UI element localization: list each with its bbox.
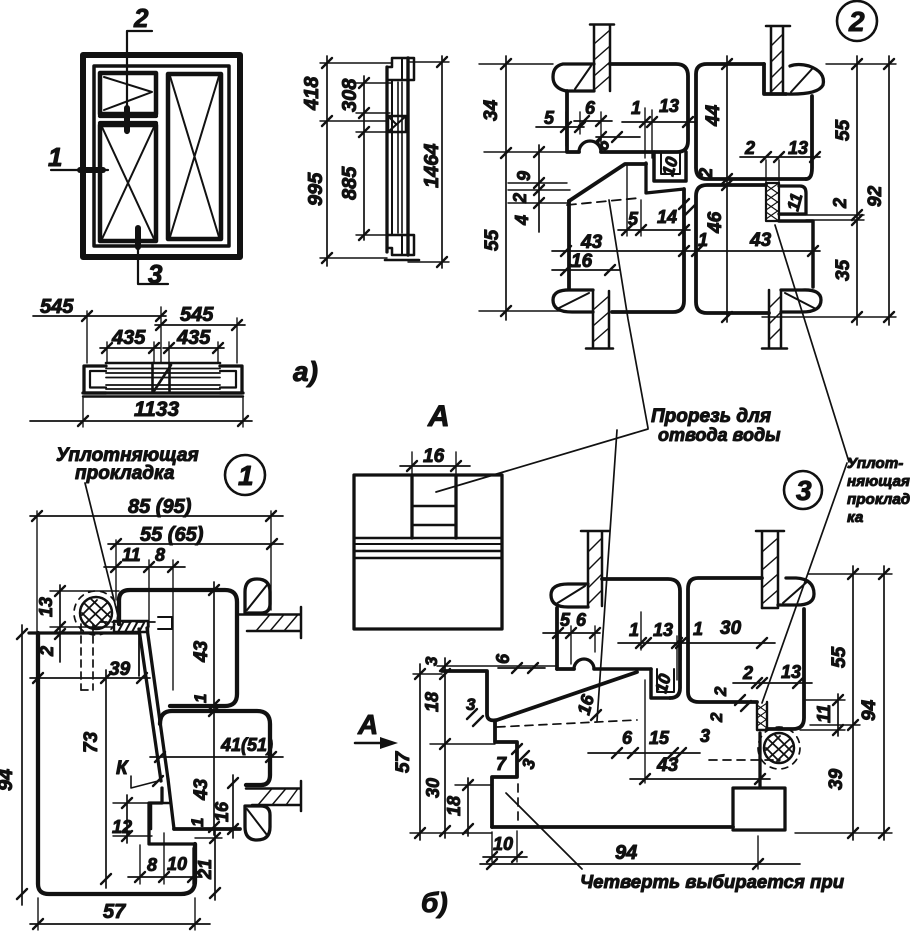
plan section right jamb bracket bbox=[220, 366, 242, 393]
det2 upper-left sash body bbox=[601, 64, 688, 152]
svg-text:13: 13 bbox=[36, 597, 56, 617]
svg-text:94: 94 bbox=[615, 842, 637, 864]
left casement diagonal 1 bbox=[102, 127, 154, 239]
det1 dashed bracket bbox=[158, 617, 172, 629]
det2 upper-right sash bead bump bbox=[786, 65, 823, 95]
det1 frame rebate vertical bbox=[138, 633, 140, 676]
svg-text:21: 21 bbox=[195, 859, 215, 880]
svg-text:85 (95): 85 (95) bbox=[128, 496, 192, 518]
svg-text:39: 39 bbox=[826, 768, 847, 790]
view A block outline bbox=[354, 475, 502, 629]
svg-text:57: 57 bbox=[393, 750, 414, 773]
det1 upper sash glazing bead bbox=[245, 579, 270, 613]
det2 lower-left sash rebate bbox=[646, 163, 684, 193]
view A drainage slot bbox=[410, 475, 413, 538]
det2 upper-left sash bottom left bbox=[567, 91, 579, 152]
svg-text:2: 2 bbox=[37, 646, 57, 657]
det1 dim 16 bbox=[232, 775, 234, 838]
leader tick 2 bbox=[124, 108, 130, 131]
det2 upper-left sash groove arc bbox=[579, 141, 601, 152]
svg-text:6: 6 bbox=[622, 728, 633, 748]
det2 left glass pane top bbox=[593, 25, 596, 91]
vsec dim line right 1464 bbox=[441, 56, 443, 268]
det1 sash slope double line bbox=[139, 629, 161, 781]
det1 dim 94 bbox=[21, 625, 23, 905]
det2 lower-left sash top slope bbox=[569, 164, 646, 201]
svg-text:11: 11 bbox=[122, 545, 141, 565]
svg-text:39: 39 bbox=[109, 659, 131, 680]
det2 left glass pane top cap bbox=[590, 23, 614, 26]
dim line 1133 bbox=[30, 420, 252, 422]
vertical section glass lines bbox=[397, 82, 399, 233]
det1 frame outline bbox=[38, 633, 195, 894]
window elevation inner frame bbox=[94, 66, 229, 246]
svg-text:13: 13 bbox=[653, 620, 673, 640]
left casement diagonal 2 bbox=[102, 127, 154, 239]
det3 left dim 57 bbox=[419, 664, 421, 840]
det1 top extension lines bbox=[37, 511, 271, 690]
svg-text:18: 18 bbox=[422, 692, 442, 712]
svg-text:2: 2 bbox=[707, 712, 726, 723]
det2 junction tick marks bbox=[679, 199, 689, 209]
svg-text:10: 10 bbox=[167, 854, 187, 874]
svg-text:73: 73 bbox=[81, 731, 102, 753]
svg-text:проклад-: проклад- bbox=[847, 491, 910, 508]
plan section left jamb bracket bbox=[84, 366, 106, 393]
right casement diagonal 2 bbox=[170, 76, 219, 237]
svg-text:94: 94 bbox=[0, 769, 17, 791]
det1 sealing gasket bar bbox=[114, 621, 148, 632]
det3 right sash gasket bar bbox=[757, 702, 767, 730]
det2 left glass pane bottom bbox=[592, 291, 595, 348]
svg-text:55 (65): 55 (65) bbox=[140, 524, 204, 546]
dim line 545 right bbox=[155, 324, 245, 326]
det1 dim chain 43/1/43/1 bbox=[213, 582, 215, 835]
det2 right glass pane top bbox=[766, 25, 790, 28]
view A dim line 16 bbox=[400, 465, 470, 467]
svg-text:14: 14 bbox=[657, 207, 677, 227]
det3 right sash glass notch bbox=[762, 607, 778, 610]
det1 slope lower part bbox=[168, 779, 174, 829]
det3 right sash body bbox=[688, 578, 762, 702]
svg-text:Четверть выбирается при: Четверть выбирается при bbox=[580, 871, 845, 892]
circled detail number 1 bbox=[225, 455, 265, 495]
det3 sealing gasket circle bbox=[764, 733, 794, 763]
svg-text:995: 995 bbox=[305, 172, 327, 206]
svg-text:46: 46 bbox=[705, 211, 726, 234]
view A sill band lines bbox=[354, 537, 502, 540]
svg-text:16: 16 bbox=[212, 801, 232, 822]
det1 upper glass pane bbox=[239, 613, 300, 616]
svg-text:30: 30 bbox=[423, 778, 443, 798]
svg-text:2: 2 bbox=[830, 198, 850, 209]
svg-text:435: 435 bbox=[111, 327, 146, 349]
svg-text:отвода воды: отвода воды bbox=[658, 425, 781, 445]
det2 left dim chain 34/55 bbox=[505, 56, 507, 320]
det1 lower sash glazing bead bbox=[245, 806, 270, 840]
det3 dim 11 rotated bbox=[837, 694, 839, 736]
svg-text:3: 3 bbox=[700, 726, 710, 746]
det2 lower-right sash step bbox=[779, 221, 813, 287]
det2 lower-left sash right edge bbox=[612, 189, 684, 312]
det3 frame left steps bbox=[492, 722, 517, 827]
svg-text:16: 16 bbox=[571, 251, 593, 272]
svg-text:13: 13 bbox=[781, 662, 801, 682]
window elevation outer frame bbox=[83, 55, 240, 257]
vertical section left face bbox=[385, 67, 388, 252]
leader line 2 bbox=[127, 31, 152, 133]
det1 frame quarter rebate bbox=[149, 788, 195, 844]
dim line 435 right bbox=[163, 347, 224, 349]
circled detail number 2 bbox=[837, 1, 877, 41]
svg-text:1: 1 bbox=[48, 142, 62, 172]
horizontal impost line upper bbox=[100, 114, 156, 118]
vsec extension lines bbox=[320, 62, 449, 262]
det3 right sash bead bump bbox=[778, 578, 814, 605]
det3 right extension lines bbox=[795, 574, 892, 833]
det1 sealing gasket circle bbox=[80, 597, 112, 629]
svg-text:43: 43 bbox=[191, 640, 212, 663]
leader line 1 bbox=[51, 169, 108, 171]
det2 lower-left sash bottom hook bbox=[553, 290, 593, 312]
svg-text:44: 44 bbox=[703, 104, 724, 127]
svg-text:3: 3 bbox=[422, 656, 441, 666]
svg-text:Уплот-: Уплот- bbox=[847, 455, 903, 472]
det2 lower-right sash bottom hook bbox=[781, 290, 821, 312]
svg-text:57: 57 bbox=[103, 901, 126, 923]
det1 lower sash bottom edge bbox=[174, 827, 240, 831]
vertical section head block bbox=[387, 58, 414, 80]
right casement sash bbox=[168, 74, 221, 239]
plan section frame bottom line bbox=[83, 391, 243, 394]
svg-text:13: 13 bbox=[659, 96, 679, 116]
det1 frame top edge bbox=[29, 631, 139, 634]
vertical section right face bbox=[406, 58, 409, 255]
det2 lower-right sash notch box (11) bbox=[779, 186, 806, 214]
plan section sash band inner lines bbox=[106, 368, 220, 370]
svg-text:6: 6 bbox=[576, 610, 587, 630]
det3 left sash bottom edge with groove arc bbox=[557, 667, 574, 671]
left casement sash bbox=[100, 125, 156, 241]
det2 left glass hatch top bbox=[594, 30, 610, 90]
svg-text:30: 30 bbox=[720, 618, 742, 639]
det3 frame sill plateau and slope bbox=[442, 671, 637, 720]
svg-text:ка: ка bbox=[847, 509, 863, 526]
det2 upper-left sash glazing bead bbox=[553, 64, 594, 91]
plan section sill line bbox=[83, 395, 243, 397]
svg-text:5: 5 bbox=[560, 610, 571, 630]
svg-text:4: 4 bbox=[512, 215, 532, 226]
vertical section sill block bbox=[387, 235, 414, 255]
det2 extension lines left bbox=[479, 64, 570, 311]
svg-text:няющая: няющая bbox=[847, 473, 910, 490]
det3 left sash left edge bbox=[555, 608, 559, 669]
svg-text:б): б) bbox=[421, 887, 448, 918]
det1 dim 73 bbox=[105, 670, 107, 888]
svg-text:8: 8 bbox=[155, 545, 165, 565]
horizontal impost line lower bbox=[100, 121, 156, 125]
svg-text:41(51): 41(51) bbox=[220, 735, 273, 755]
svg-text:35: 35 bbox=[833, 259, 854, 281]
svg-text:2: 2 bbox=[742, 663, 753, 683]
svg-text:1: 1 bbox=[693, 619, 703, 639]
leader from note text down to det3 slot bbox=[597, 430, 617, 721]
leader tick 1 bbox=[80, 167, 103, 173]
svg-text:1: 1 bbox=[191, 694, 210, 703]
leader line 3 bbox=[138, 230, 168, 284]
vent sash opening symbol bbox=[104, 77, 152, 110]
svg-text:К: К bbox=[116, 758, 129, 779]
svg-text:А: А bbox=[427, 400, 450, 433]
vsec dim line inner left bbox=[363, 76, 365, 240]
leader from det2 slot to note text bbox=[609, 200, 648, 428]
svg-text:11: 11 bbox=[814, 704, 834, 723]
det3 frame right tooth bbox=[733, 733, 760, 827]
svg-text:2: 2 bbox=[133, 3, 149, 33]
circled detail number 3 bbox=[784, 471, 822, 509]
det1 frame hidden slot dashed bbox=[81, 622, 156, 690]
leader tick 3 bbox=[135, 228, 141, 247]
svg-text:9: 9 bbox=[514, 171, 534, 181]
svg-text:1: 1 bbox=[631, 98, 641, 118]
det2 lower-right sash gasket bar bbox=[766, 183, 779, 221]
svg-text:1464: 1464 bbox=[421, 144, 443, 189]
dim line 545 left bbox=[33, 315, 166, 317]
det3 right sash right edge bbox=[767, 609, 804, 729]
det2 upper-right sash glass notch bbox=[764, 64, 786, 94]
plan section sash band top edge bbox=[106, 362, 220, 365]
svg-text:55: 55 bbox=[482, 229, 503, 251]
svg-text:13: 13 bbox=[788, 138, 808, 158]
det2 right extension lines bbox=[762, 64, 896, 317]
det2 lower-left sash hidden slot dashed bbox=[567, 198, 639, 205]
det3 frame bottom right bbox=[733, 788, 785, 830]
svg-text:1: 1 bbox=[238, 460, 254, 491]
svg-text:10: 10 bbox=[493, 834, 513, 854]
det2 upper-right sash body bbox=[696, 64, 806, 179]
svg-text:16: 16 bbox=[423, 446, 445, 467]
det3 left extension lines bbox=[410, 666, 556, 833]
svg-text:15: 15 bbox=[649, 728, 670, 748]
det2 lower-right sash body bbox=[696, 185, 769, 313]
det3 frame hidden lines dashed bbox=[497, 720, 780, 823]
dim line 435 left bbox=[100, 347, 160, 349]
vertical section sill cap line bbox=[385, 259, 419, 262]
svg-text:3: 3 bbox=[796, 475, 812, 506]
det3 far right dim 94 bbox=[883, 566, 885, 840]
svg-text:2: 2 bbox=[848, 6, 865, 37]
det3 frame bottom edge bbox=[492, 825, 733, 829]
leader from det2 gasket to right note bbox=[775, 225, 849, 462]
det1 lower glass pane bbox=[246, 787, 300, 790]
det2 right dim chain 55/2/35 bbox=[856, 56, 858, 325]
plan section left jamb inner step bbox=[90, 371, 106, 388]
det2 upper-right sash right edge bbox=[806, 96, 812, 179]
vent sash (fortochka) top-left bbox=[100, 73, 156, 114]
svg-text:43: 43 bbox=[656, 755, 679, 776]
det3 left glass pane bbox=[581, 530, 609, 533]
svg-text:435: 435 bbox=[176, 327, 211, 349]
det2 center dim chain 44/46 bbox=[726, 56, 728, 322]
svg-text:34: 34 bbox=[481, 99, 502, 121]
det3 inner chain 18 bbox=[467, 778, 469, 836]
svg-text:Прорезь для: Прорезь для bbox=[651, 406, 771, 427]
det1 lower sash step bbox=[151, 802, 169, 805]
svg-text:55: 55 bbox=[829, 646, 850, 668]
leader from left note to det1 gasket bbox=[85, 483, 119, 620]
vertical section impost block bbox=[388, 116, 406, 132]
svg-text:43: 43 bbox=[749, 230, 772, 251]
det3 right chain 55/39 bbox=[852, 566, 854, 840]
plan section break diagonal bbox=[154, 365, 171, 391]
leader from quarter note to det3 bbox=[506, 793, 582, 869]
det2 right glass pane bottom bbox=[768, 290, 771, 348]
svg-text:55: 55 bbox=[833, 119, 854, 141]
svg-text:1133: 1133 bbox=[134, 398, 179, 421]
det2 far right dim 92 bbox=[888, 56, 890, 325]
svg-text:А: А bbox=[357, 709, 378, 740]
svg-text:5: 5 bbox=[544, 108, 555, 128]
svg-text:418: 418 bbox=[301, 76, 323, 111]
right casement diagonal 1 bbox=[170, 76, 219, 237]
svg-text:545: 545 bbox=[40, 296, 74, 318]
svg-text:2: 2 bbox=[696, 168, 716, 179]
svg-text:1: 1 bbox=[188, 818, 207, 827]
svg-text:2: 2 bbox=[711, 686, 730, 697]
det2 small left chain 9/2/4 bbox=[538, 145, 540, 232]
det3 left sash body bbox=[602, 579, 680, 698]
svg-text:7: 7 bbox=[496, 754, 507, 774]
det1 upper sash body bbox=[119, 590, 237, 706]
svg-text:43: 43 bbox=[191, 778, 212, 801]
plan dim extension lines bbox=[83, 307, 243, 427]
svg-text:1: 1 bbox=[629, 620, 639, 640]
vsec dim line outer left bbox=[326, 56, 328, 266]
det1 lower sash body bbox=[160, 711, 270, 785]
det3 left chain 3/18/30 bbox=[444, 658, 446, 838]
det3 left sash glazing bead bbox=[551, 584, 588, 607]
svg-text:94: 94 bbox=[859, 699, 880, 721]
plan section right jamb inner step bbox=[220, 371, 236, 388]
svg-text:6: 6 bbox=[585, 98, 596, 118]
svg-text:18: 18 bbox=[444, 796, 464, 816]
det2 lower-left sash left edge bbox=[567, 201, 571, 288]
svg-text:6: 6 bbox=[493, 653, 513, 664]
svg-text:а): а) bbox=[293, 356, 318, 387]
svg-text:43: 43 bbox=[580, 232, 603, 253]
svg-text:545: 545 bbox=[180, 304, 214, 326]
plan section meeting stiles bbox=[151, 363, 154, 393]
det3 left sash fin (10) bbox=[651, 669, 670, 698]
det2 upper-left sash fin (10) bbox=[654, 152, 686, 181]
svg-text:92: 92 bbox=[865, 185, 886, 207]
leader from right note to det3 gasket bbox=[762, 463, 847, 703]
leader from note text to view A slot bbox=[436, 429, 648, 492]
det1 dim 21 bbox=[214, 830, 216, 900]
svg-text:8: 8 bbox=[147, 855, 157, 875]
svg-text:прокладка: прокладка bbox=[75, 463, 175, 484]
det1 left chain 13/2 bbox=[59, 585, 61, 662]
det3 right glass pane bbox=[756, 530, 784, 533]
svg-text:885: 885 bbox=[339, 166, 361, 200]
svg-text:2: 2 bbox=[744, 138, 755, 158]
